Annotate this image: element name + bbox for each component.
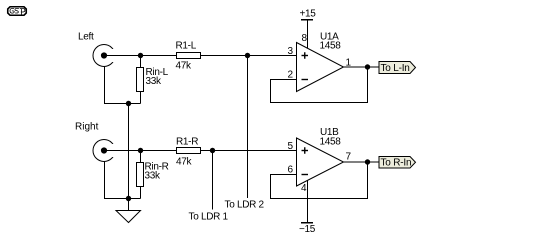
power +15 rail — [300, 9, 317, 50]
svg-text:33k: 33k — [146, 76, 163, 87]
wire left RCA shell to ground bus — [105, 67, 141, 104]
svg-text:1458: 1458 — [320, 137, 342, 148]
node U1B output junction — [365, 159, 370, 164]
wire down to LDR 2 — [247, 56, 249, 199]
resistor R1-L — [177, 53, 201, 59]
svg-text:To L-In: To L-In — [381, 63, 410, 74]
svg-text:+15: +15 — [300, 9, 317, 20]
svg-text:8: 8 — [302, 33, 308, 44]
svg-text:Left: Left — [78, 32, 94, 43]
svg-text:6: 6 — [288, 165, 294, 176]
node junction Rin-L top — [138, 53, 143, 58]
svg-text:1458: 1458 — [320, 41, 342, 52]
tag To L-In — [379, 62, 416, 75]
op-amp U1A — [297, 43, 344, 92]
svg-text:To LDR 1: To LDR 1 — [189, 212, 229, 223]
svg-text:−15: −15 — [299, 224, 316, 235]
resistor R1-R — [177, 148, 201, 154]
wire right RCA shell to ground bus — [105, 162, 141, 199]
pin 4 wire to -15 — [307, 181, 309, 223]
node U1A output junction — [365, 64, 370, 69]
svg-text:To R-In: To R-In — [381, 158, 412, 169]
wire to ground symbol — [128, 199, 130, 211]
svg-text:R1-L: R1-L — [176, 41, 197, 52]
tag To R-In — [379, 157, 416, 169]
wire left signal RCA to R1-L — [104, 55, 177, 57]
svg-text:33k: 33k — [145, 171, 162, 182]
op-amp U1B — [297, 138, 344, 186]
wire U1B pin6 feedback — [271, 162, 368, 199]
power -15 rail — [299, 223, 316, 235]
svg-text:2: 2 — [288, 70, 294, 81]
svg-text:47k: 47k — [176, 61, 193, 72]
svg-text:To LDR 2: To LDR 2 — [225, 200, 265, 211]
ground — [116, 211, 141, 223]
wire U1A pin2 feedback — [271, 67, 368, 103]
wire R1-L to U1A pin3 — [201, 55, 297, 57]
svg-text:7: 7 — [346, 152, 352, 163]
node junction LDR1 branch — [210, 148, 215, 153]
resistor Rin-R — [137, 151, 144, 199]
svg-text:4: 4 — [301, 183, 307, 194]
connector J2 Right RCA — [93, 140, 117, 162]
wire ground bus down — [128, 104, 130, 199]
svg-text:5: 5 — [288, 141, 294, 152]
wire right signal RCA to R1-R — [104, 150, 177, 152]
node junction LDR2 branch — [245, 53, 250, 58]
wire R1-R to U1B pin5 — [201, 150, 297, 152]
svg-text:R1-R: R1-R — [176, 137, 198, 148]
wire U1B output — [344, 161, 380, 163]
svg-text:Right: Right — [75, 122, 99, 133]
node junction Rin-R top — [138, 148, 143, 153]
svg-text:3: 3 — [288, 46, 294, 57]
resistor Rin-L — [137, 56, 144, 104]
node junction left ground — [126, 101, 131, 106]
wire U1A output — [344, 66, 380, 68]
node junction ground — [126, 196, 131, 201]
wire down to LDR 1 — [212, 151, 214, 210]
svg-text:47k: 47k — [176, 157, 193, 168]
ESP logo — [8, 7, 27, 16]
connector J1 Left RCA — [93, 45, 117, 67]
